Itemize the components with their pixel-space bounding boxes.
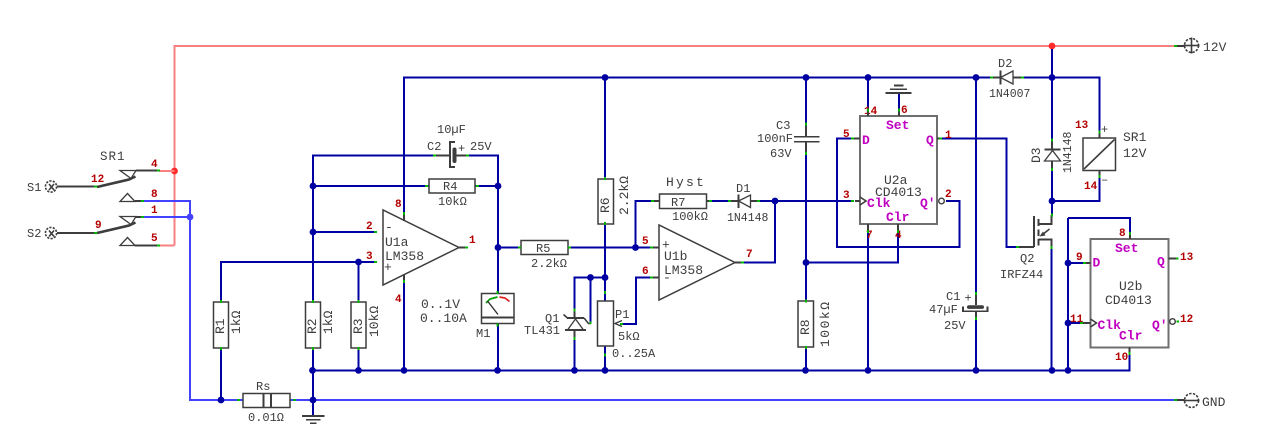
svg-text:R8: R8	[798, 319, 813, 335]
svg-text:R5: R5	[536, 242, 550, 256]
wire S1/S2 common to Rs and GND terminal (light blue net)	[142, 201, 1176, 400]
svg-text:3: 3	[843, 190, 850, 202]
wire R7 right to D1	[712, 200, 730, 202]
junction U2b Clk	[1065, 320, 1072, 327]
resistor R8	[798, 300, 833, 347]
junction +12V at SR1 pin4	[171, 168, 178, 175]
wire TL431 reference segment	[575, 278, 606, 311]
svg-text:D3: D3	[1029, 147, 1044, 163]
resistor R3	[351, 302, 382, 348]
svg-text:D: D	[862, 133, 870, 148]
svg-text:25V: 25V	[470, 140, 492, 154]
svg-text:0..10A: 0..10A	[420, 311, 467, 326]
ground symbol bottom	[302, 400, 325, 423]
wire TL431 ref pin drop	[590, 278, 592, 323]
diode D3	[1029, 131, 1075, 173]
label meter ranges	[420, 297, 467, 326]
junction gnd R8	[802, 367, 809, 374]
svg-text:TL431: TL431	[524, 324, 560, 338]
svg-text:Set: Set	[1115, 241, 1138, 256]
wire U2b ground column x1068	[1067, 218, 1069, 370]
svg-text:100kΩ: 100kΩ	[818, 300, 833, 347]
wire U1a pin4 lead	[403, 281, 405, 370]
svg-text:–: –	[1101, 173, 1108, 187]
wire D1 to U2a Clk	[759, 200, 854, 202]
junction gnd U2b	[1065, 367, 1072, 374]
svg-text:63V: 63V	[770, 147, 792, 161]
junction Rs right / ground	[310, 397, 317, 404]
svg-text:5: 5	[843, 129, 850, 141]
wire node5 up to R7	[636, 201, 654, 248]
svg-text:D: D	[1093, 256, 1101, 271]
svg-text:0.01Ω: 0.01Ω	[248, 411, 284, 425]
wire U1b output to Clk node	[743, 201, 775, 263]
wire U2b Clr lead	[1129, 353, 1131, 370]
svg-text:14: 14	[1084, 181, 1098, 193]
wire U2a Q to Q2 gate	[941, 139, 1018, 248]
svg-text:+: +	[965, 292, 972, 306]
svg-text:2: 2	[945, 189, 952, 201]
svg-text:10µF: 10µF	[437, 123, 466, 137]
svg-text:R3: R3	[351, 318, 366, 334]
resistor R6	[598, 176, 632, 224]
svg-text:2: 2	[366, 221, 373, 233]
svg-text:U1a: U1a	[385, 235, 409, 250]
svg-text:11: 11	[1070, 314, 1084, 326]
wire GND rail y370	[312, 353, 1130, 370]
diode D1	[727, 182, 769, 225]
svg-text:6: 6	[642, 266, 649, 278]
svg-text:6: 6	[901, 105, 908, 117]
svg-text:12V: 12V	[1203, 40, 1227, 55]
svg-text:9: 9	[95, 220, 102, 232]
svg-text:Clr: Clr	[886, 210, 909, 225]
svg-text:13: 13	[1075, 120, 1089, 132]
svg-text:+: +	[1101, 123, 1108, 137]
wire V+ rail y77	[404, 78, 1100, 215]
resistor R4	[429, 179, 475, 209]
wire TL431 anode lead	[574, 338, 576, 370]
svg-text:8: 8	[395, 199, 402, 211]
wire relay coil minus	[1052, 176, 1100, 201]
junction Clk node	[772, 198, 779, 205]
potentiometer P1	[598, 301, 657, 361]
green connection marks	[94, 46, 1179, 400]
svg-text:14: 14	[864, 106, 878, 118]
svg-text:R2: R2	[305, 318, 320, 334]
svg-text:IRFZ44: IRFZ44	[1000, 268, 1043, 282]
junction V+ D2 anode / 12V	[1049, 74, 1056, 81]
svg-text:47µF: 47µF	[929, 303, 958, 317]
svg-text:Hyst: Hyst	[666, 175, 706, 190]
wire D3 column x1052	[1051, 49, 1053, 215]
wire U2a D to Q' loop	[837, 139, 960, 248]
svg-text:SR1: SR1	[1123, 130, 1147, 145]
junction U2b D	[1065, 260, 1072, 267]
svg-text:2.2kΩ: 2.2kΩ	[531, 257, 567, 271]
junction gnd U2a pin7	[865, 367, 872, 374]
IC U2a CD4013	[843, 105, 952, 242]
svg-text:S2: S2	[27, 227, 41, 241]
junction gnd R3	[355, 367, 362, 374]
svg-text:Q2: Q2	[1020, 252, 1034, 266]
svg-text:2.2kΩ: 2.2kΩ	[617, 176, 632, 215]
wire C2 right to output column x498	[467, 156, 498, 371]
junction relay minus / Q2 drain	[1049, 198, 1056, 205]
wire R4 right segment	[475, 185, 498, 187]
terminal 12V	[1177, 38, 1227, 56]
svg-text:5: 5	[151, 233, 158, 245]
svg-text:1: 1	[151, 205, 158, 217]
wire U2b D segment	[1068, 262, 1084, 264]
junction V+ R6	[602, 74, 609, 81]
junction V+ D2 cathode	[973, 74, 980, 81]
svg-text:-: -	[663, 271, 671, 286]
svg-text:Q': Q'	[1152, 318, 1168, 333]
svg-text:4: 4	[395, 294, 402, 306]
svg-text:1N4148: 1N4148	[727, 212, 769, 225]
svg-text:D1: D1	[736, 182, 750, 196]
svg-text:1: 1	[469, 235, 476, 247]
wire U1a pin3 segment with R1 top	[221, 262, 376, 302]
pin1 contact	[120, 217, 136, 225]
svg-text:1: 1	[945, 130, 952, 142]
junction U1a output	[495, 244, 502, 251]
transistor Q1 TL431	[524, 310, 591, 338]
svg-text:12: 12	[1180, 314, 1193, 326]
junction gnd P1	[602, 367, 609, 374]
svg-text:7: 7	[746, 249, 753, 261]
resistor Rs shunt	[243, 380, 290, 425]
svg-text:GND: GND	[1202, 395, 1226, 410]
svg-text:7: 7	[866, 230, 873, 242]
svg-text:Rs: Rs	[256, 380, 270, 394]
resistor R1	[213, 302, 244, 348]
transistor Q2 IRFZ44	[1000, 215, 1052, 282]
svg-text:R4: R4	[443, 180, 457, 194]
svg-text:S1: S1	[27, 181, 41, 195]
junction V+ C3	[803, 74, 810, 81]
connector S1	[27, 181, 96, 195]
svg-text:C2: C2	[427, 140, 441, 154]
svg-text:1kΩ: 1kΩ	[229, 310, 244, 334]
svg-text:10kΩ: 10kΩ	[438, 195, 467, 209]
svg-text:1kΩ: 1kΩ	[321, 310, 336, 334]
svg-text:+: +	[458, 142, 465, 156]
svg-text:C3: C3	[776, 119, 790, 133]
svg-text:R7: R7	[671, 196, 685, 210]
capacitor C1	[929, 290, 988, 333]
junction P1 top / R6 bottom	[602, 274, 609, 281]
capacitor C2	[427, 123, 492, 167]
svg-text:12V: 12V	[1123, 146, 1147, 161]
svg-text:Clk: Clk	[1098, 318, 1122, 333]
wire R3 column	[358, 262, 360, 370]
resistor R2	[305, 302, 336, 348]
junction U1a pin2	[310, 229, 317, 236]
svg-text:U2b: U2b	[1119, 279, 1142, 294]
wire U1b pin6 to P1 wiper	[622, 278, 652, 325]
op-amp U1a	[366, 199, 476, 306]
svg-text:0..1V: 0..1V	[421, 297, 460, 312]
wire R2 column	[312, 348, 314, 400]
junction R1 bottom	[218, 397, 225, 404]
junction TL431 ref	[587, 274, 594, 281]
wire R1 bottom lead	[220, 348, 222, 400]
wire U1a pin2 segment	[313, 231, 376, 233]
wire C1 column x976	[975, 78, 977, 371]
svg-text:Set: Set	[886, 118, 909, 133]
pin4 contact	[120, 171, 136, 179]
capacitor C3	[757, 119, 820, 161]
pin8 contact	[120, 194, 135, 202]
svg-text:13: 13	[1180, 252, 1194, 264]
junction node5	[632, 244, 639, 251]
svg-text:12: 12	[91, 174, 104, 186]
svg-text:SR1: SR1	[100, 150, 126, 164]
svg-text:-: -	[385, 220, 393, 235]
junction gnd C1	[973, 367, 980, 374]
wire R6 column x605	[604, 78, 606, 371]
relay switch SR1 contacts	[91, 150, 175, 246]
resistor R7	[653, 194, 712, 224]
svg-text:100kΩ: 100kΩ	[672, 210, 708, 224]
wire U2b Set loop	[1068, 218, 1130, 233]
svg-text:1N4007: 1N4007	[989, 88, 1030, 101]
wire R5 output segment	[498, 247, 521, 249]
svg-text:Q': Q'	[920, 196, 936, 211]
svg-text:Q: Q	[1157, 255, 1165, 270]
junction gnd R2	[309, 367, 316, 374]
svg-text:C1: C1	[946, 290, 960, 304]
junction light net at switch	[187, 214, 194, 221]
svg-text:R1: R1	[213, 318, 228, 334]
wire U2a pin14/pin7 column x868	[867, 78, 869, 371]
wire C3/R8/Clr column x806	[805, 78, 807, 371]
junction R3 top	[355, 259, 362, 266]
svg-text:5kΩ: 5kΩ	[618, 330, 640, 344]
IC U2b CD4013	[1070, 228, 1194, 364]
svg-text:0..25A: 0..25A	[612, 347, 656, 361]
ground symbol above U2a pin6	[886, 86, 912, 117]
svg-text:R6: R6	[598, 197, 613, 213]
svg-text:Q: Q	[926, 133, 934, 148]
relay coil SR1	[1075, 120, 1147, 193]
wire +12V red rail	[158, 46, 1176, 246]
junction R4 right	[495, 183, 502, 190]
wire R4 left segment	[313, 185, 429, 187]
svg-text:P1: P1	[615, 308, 629, 322]
wire U2b Clk segment	[1068, 322, 1082, 324]
svg-text:10kΩ: 10kΩ	[367, 306, 382, 337]
junction gnd TL431	[571, 367, 578, 374]
wire R5 right to U1b pin5	[568, 247, 652, 249]
diode D2	[989, 57, 1030, 101]
svg-text:M1: M1	[476, 327, 490, 341]
meter M1	[476, 294, 514, 342]
svg-text:9: 9	[1076, 252, 1083, 264]
svg-text:3: 3	[366, 251, 373, 263]
svg-text:+: +	[662, 238, 670, 253]
junction V+ U2a pin14	[865, 74, 872, 81]
svg-text:25V: 25V	[944, 319, 966, 333]
op-amp U1b	[642, 225, 753, 300]
svg-text:5: 5	[642, 236, 649, 248]
junction R4 left	[310, 183, 317, 190]
svg-text:4: 4	[151, 159, 158, 171]
wire Clr net R8 to U2a pin4	[806, 232, 898, 263]
svg-text:D2: D2	[998, 57, 1012, 71]
svg-text:8: 8	[151, 189, 158, 201]
junction Clr R8	[803, 259, 810, 266]
svg-text:CD4013: CD4013	[1105, 293, 1152, 308]
svg-text:1N4148: 1N4148	[1062, 131, 1075, 173]
terminal GND	[1177, 394, 1226, 411]
connector S2	[27, 227, 96, 241]
svg-text:CD4013: CD4013	[875, 185, 922, 200]
pole1 arm pin12	[97, 177, 136, 188]
svg-text:8: 8	[1119, 228, 1126, 240]
wire feedback column x313 with C2 wire	[313, 156, 435, 303]
pole2 arm pin9	[97, 223, 136, 234]
svg-text:+: +	[384, 260, 392, 275]
svg-text:Clr: Clr	[1119, 329, 1142, 344]
pin5 contact	[120, 238, 135, 246]
svg-text:100nF: 100nF	[757, 132, 793, 146]
junction +12V at x1052	[1049, 43, 1056, 50]
wire Q2 source lead	[1051, 248, 1053, 371]
junction gnd M1	[494, 367, 501, 374]
svg-text:10: 10	[1115, 352, 1128, 364]
junction gnd Q2 source	[1049, 367, 1056, 374]
resistor R5	[521, 241, 568, 272]
junction gnd U1a pin4	[401, 367, 408, 374]
